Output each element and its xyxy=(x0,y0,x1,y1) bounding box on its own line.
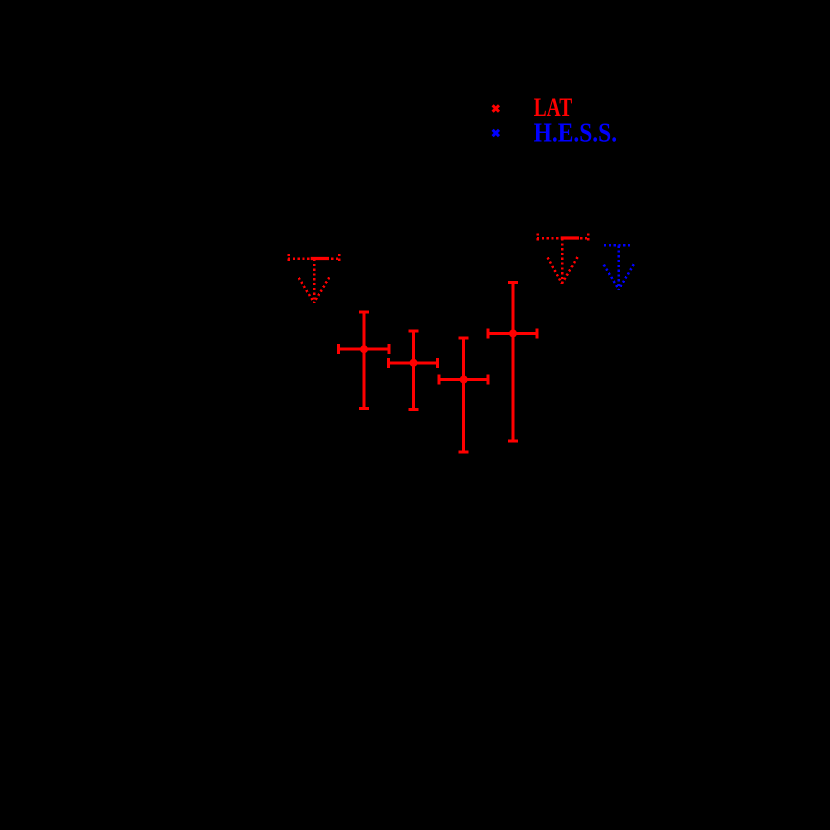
legend marker LAT (red X) xyxy=(493,105,499,111)
red data point 2 xyxy=(388,331,438,411)
red upper-limit arrow 1 (dotted) xyxy=(288,254,340,303)
blue upper-limit arrow (dotted) xyxy=(604,245,634,290)
red data point 4 xyxy=(488,282,538,441)
red data point 3 xyxy=(438,338,488,453)
red upper-limit arrow 2 (dotted) xyxy=(537,233,589,284)
svg-text:H.E.S.S.: H.E.S.S. xyxy=(534,116,618,147)
legend marker H.E.S.S. (blue X) xyxy=(493,130,499,136)
red data point 1 xyxy=(338,312,389,410)
